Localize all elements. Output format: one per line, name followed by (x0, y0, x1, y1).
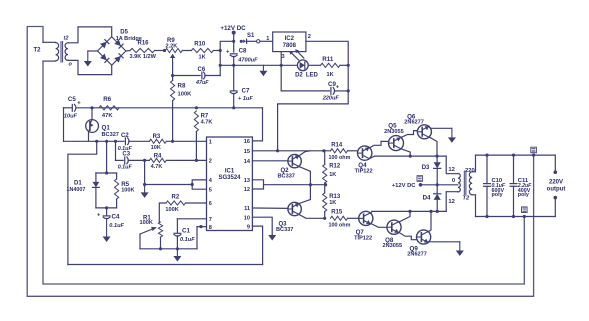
label IC2 pin3 (282, 54, 285, 60)
label R6 value (102, 113, 113, 119)
transistor Q1 (86, 120, 99, 133)
wire output top rail (476, 154, 556, 156)
wire top bus (375, 155, 447, 157)
svg-text:+12V DC: +12V DC (392, 183, 416, 189)
switch S1 (240, 39, 273, 43)
label IC1 (225, 168, 235, 174)
resistor R8 (171, 81, 175, 101)
node tap R12R13 (324, 183, 327, 186)
svg-text:IC2: IC2 (285, 36, 295, 42)
ground at pin10 (268, 235, 276, 241)
wire vertical A (68, 141, 97, 264)
svg-text:R16: R16 (138, 41, 150, 47)
node pin8 (199, 225, 202, 228)
wire Q9 collector (429, 211, 431, 231)
wire pin15 row (252, 150, 330, 152)
wire pin45 drop (144, 160, 146, 184)
svg-text:poly: poly (492, 192, 503, 198)
label IC1 pin 6 (209, 201, 212, 207)
node rail1 A (95, 140, 98, 143)
led D2 (297, 60, 308, 71)
label Q1 part (102, 132, 119, 138)
svg-text:16: 16 (244, 139, 250, 145)
wire pin45 row (145, 184, 193, 186)
R1 wiper (140, 227, 157, 234)
svg-text:R3: R3 (153, 134, 161, 140)
wire C4 top (106, 208, 108, 215)
ground at C4 (103, 218, 111, 242)
wire pins1213 tap (264, 184, 326, 186)
node R11 right (347, 64, 350, 67)
label C8 (239, 47, 247, 54)
wire pin2 row b (128, 159, 149, 161)
label C10 poly (492, 192, 503, 198)
svg-text:TIP122: TIP122 (355, 169, 373, 175)
node ground rail tee (219, 64, 222, 67)
wire Q4 collector to Q5 base (370, 141, 389, 147)
label S1 (247, 33, 255, 39)
node S1 tee (232, 40, 235, 43)
wire C9 row right (334, 90, 348, 92)
transformer T2 primary winding (56, 43, 59, 61)
label R8 (178, 83, 186, 90)
svg-text:1K: 1K (327, 72, 334, 78)
svg-text:D1: D1 (74, 180, 82, 186)
node rail1 R8 (171, 140, 174, 143)
wire bridge plus to R16 (126, 50, 130, 53)
transformer T2 secondary winding (65, 43, 68, 61)
label C11 volt (518, 188, 531, 194)
node rail1 C3tap (114, 140, 117, 143)
label IC1 pin 7 (209, 217, 212, 223)
svg-text:12: 12 (448, 199, 454, 205)
wire Q7 emitter to bus (371, 211, 372, 213)
wire Q9 emitter to ground (429, 241, 460, 243)
label R4 (154, 154, 162, 160)
svg-text:13: 13 (244, 178, 250, 184)
wire wiper to R8 (172, 62, 174, 81)
transistor Q9 (417, 230, 431, 244)
svg-text:BC337: BC337 (276, 227, 293, 233)
transistor Q2 (288, 154, 301, 167)
wire R1 bottom (160, 237, 162, 249)
capacitor C10 (484, 155, 491, 216)
label R14 value (329, 155, 351, 161)
wire R13 leads (324, 185, 326, 219)
svg-text:0: 0 (452, 178, 455, 184)
svg-text:4700uF: 4700uF (237, 57, 258, 63)
svg-text:R6: R6 (103, 96, 111, 103)
svg-text:12: 12 (244, 187, 250, 193)
capacitor C4 (103, 216, 110, 219)
wire R2 to pin6 (186, 202, 207, 204)
resistor R6 (99, 106, 119, 110)
label R16 value (130, 54, 157, 60)
label IC1 pin 9 (247, 224, 250, 230)
svg-text:C5: C5 (68, 96, 76, 103)
wire bottom row (140, 248, 197, 250)
capacitor C11 (510, 155, 517, 216)
label C5 plus (77, 101, 81, 107)
label +12V DC mid (392, 183, 416, 189)
svg-text:3.9K 1/2W: 3.9K 1/2W (130, 54, 157, 60)
wire C1 bottom (176, 236, 178, 249)
wire Q5 emitter to bus (401, 149, 410, 156)
wire pin8 riser (197, 227, 207, 249)
label C3 value (118, 165, 133, 171)
label bottom 12 (448, 199, 454, 205)
label D4 (423, 194, 431, 201)
node top C10 (485, 154, 488, 157)
label Q9 (410, 245, 419, 252)
node Q5 emitter (409, 155, 412, 158)
svg-text:1: 1 (209, 140, 212, 146)
wire pin5 bracket (192, 185, 206, 190)
node bottom loop (523, 215, 526, 218)
svg-text:BC337: BC337 (278, 173, 295, 179)
svg-text:2N3055: 2N3055 (383, 243, 403, 249)
wire secondary top lead (472, 155, 475, 172)
wire Q6 collector (429, 137, 437, 156)
wire inner ground rail (68, 264, 263, 266)
svg-text:T2: T2 (463, 196, 471, 202)
label output (547, 186, 566, 192)
node R1 bottom (159, 247, 162, 250)
label IC1 pin 8 (209, 225, 212, 231)
svg-text:BC327: BC327 (102, 132, 119, 138)
output transformer core (464, 171, 466, 195)
node +12V top (232, 31, 236, 35)
label R15 value (329, 222, 351, 228)
svg-text:100 ohm: 100 ohm (329, 222, 351, 228)
label IC2 (285, 36, 295, 42)
svg-text:0.1uF: 0.1uF (118, 165, 133, 171)
label R7 value (201, 119, 213, 125)
svg-text:7808: 7808 (283, 43, 297, 49)
node R7 top (195, 106, 198, 109)
svg-text:2N3055: 2N3055 (384, 129, 404, 135)
wire R9-R10 (182, 50, 191, 52)
label Q5 part (384, 129, 404, 135)
svg-text:C3: C3 (122, 152, 130, 158)
node terminal bottom (554, 196, 558, 200)
wire Q8 collector to Q9 base (399, 233, 416, 240)
wire pin4 bracket (192, 180, 206, 185)
label 0 (452, 178, 455, 184)
label R11 (322, 56, 334, 63)
label R13 value (329, 200, 336, 206)
svg-text:2: 2 (209, 159, 212, 165)
transistor Q8 (387, 220, 401, 234)
label IC1 part (218, 175, 241, 181)
wire pin1 rail a (64, 140, 125, 142)
capacitor C1 (174, 233, 181, 236)
resistor R5 (115, 179, 119, 199)
wire Q2Q3 column (309, 171, 311, 199)
wire bridge minus to ground (88, 50, 98, 52)
node R7 bottom (195, 159, 198, 162)
label LED (306, 73, 319, 79)
ic IC1 body (207, 137, 253, 231)
label IC1 pin 1 (209, 140, 212, 146)
ground at C1 (173, 249, 181, 262)
node Q9 collector (429, 210, 432, 213)
resistor R7 (194, 111, 198, 132)
label C2 (121, 133, 129, 139)
label 220V (549, 180, 563, 186)
label R9 (167, 38, 175, 44)
wire pin1 rail b (129, 140, 150, 142)
wire secondary bottom lead (472, 195, 475, 217)
label Q6 (407, 113, 416, 120)
svg-text:100K: 100K (121, 187, 134, 193)
wire Q3 emitter (299, 215, 324, 219)
wire C6 row right (205, 75, 220, 77)
label IC1 pin 11 (244, 206, 250, 212)
svg-text:C8: C8 (239, 47, 247, 54)
wire Q8 emitter to bus (399, 211, 410, 221)
svg-text:1K: 1K (199, 54, 206, 60)
label Q7 part (354, 236, 372, 242)
wire C8 to ground rail (233, 56, 235, 65)
wire Q7 collector to Q8 base (371, 224, 387, 228)
label R1 value (140, 220, 153, 226)
label C8 value (237, 57, 258, 63)
wire +12V riser (220, 41, 234, 75)
svg-text:2N6277: 2N6277 (407, 252, 427, 258)
svg-text:T2: T2 (34, 48, 42, 54)
wire +12V to S1 tee (233, 33, 235, 52)
label C9 (328, 81, 336, 88)
capacitor C3 (125, 157, 129, 164)
label Q1 (102, 125, 111, 132)
svg-text:14: 14 (244, 159, 251, 165)
diode D4 (434, 194, 441, 200)
wire secondary top to bridge (68, 27, 112, 43)
label C2 value (118, 146, 133, 152)
node C8 ground (232, 64, 235, 67)
svg-text:D3: D3 (422, 165, 430, 171)
label IC2 pin2 (308, 34, 311, 40)
svg-text:4.7K: 4.7K (201, 119, 213, 125)
transistor Q3 (288, 202, 301, 215)
svg-text:220uF: 220uF (322, 95, 340, 101)
svg-text:IC1: IC1 (225, 168, 235, 174)
label top 12 (448, 167, 454, 173)
label C11 value (517, 183, 532, 189)
R9 wiper arrow (170, 54, 175, 62)
node rail1 B (105, 140, 108, 143)
svg-text:S1: S1 (247, 33, 255, 39)
label R10 (194, 41, 206, 47)
resistor R10 (191, 48, 213, 52)
wire IC2 pin2 to R11 column (306, 41, 348, 65)
node R13 bottom (323, 217, 326, 220)
label C5 value (64, 114, 78, 120)
node box top (105, 171, 108, 174)
label 1A Bridge (116, 36, 142, 42)
svg-text:LED: LED (306, 73, 319, 79)
svg-text:+: + (226, 50, 230, 56)
label R4 value (151, 164, 163, 170)
label C10 (492, 178, 503, 184)
wire pin10 stub (252, 217, 272, 236)
svg-text:R11: R11 (322, 56, 334, 63)
node C6 left (171, 74, 174, 77)
output transformer primary winding (458, 174, 460, 193)
node bottom C11 (512, 215, 515, 218)
node box bottom (105, 206, 108, 209)
wire top tap (446, 156, 458, 174)
label IC2 pin1 (266, 36, 269, 42)
label R12 value (329, 172, 336, 178)
capacitor C6 (202, 72, 205, 79)
wire pin16 riser (252, 108, 262, 141)
label R7 (201, 114, 209, 120)
wire R11 to pin2 column (340, 64, 348, 66)
svg-text:1N4007: 1N4007 (67, 187, 86, 193)
label o (69, 62, 73, 68)
svg-text:100K: 100K (140, 220, 153, 226)
label C7 value (238, 96, 253, 102)
potentiometer R1 (158, 222, 162, 237)
label IC1 pin 2 (209, 159, 212, 165)
label R11 value (327, 72, 334, 78)
label IC2 part (283, 43, 297, 49)
svg-text:C1: C1 (182, 228, 190, 235)
node bottom C10 (485, 215, 488, 218)
wire outer loop (charger primary top to output top rail) (27, 27, 533, 297)
label Q2 part (278, 173, 295, 179)
wire pin7 row (177, 218, 206, 220)
svg-text:11: 11 (244, 206, 250, 212)
svg-text:R8: R8 (178, 83, 186, 90)
label IC1 pin 16 (244, 139, 250, 145)
node tap Q2col (309, 183, 312, 186)
svg-text:+ 1uF: + 1uF (238, 96, 253, 102)
svg-text:R15: R15 (331, 210, 343, 216)
wire mid rail (64, 107, 263, 109)
node centre tap (436, 183, 439, 186)
transformer T2 primary lead top (43, 41, 56, 43)
label Q3 (279, 222, 288, 228)
wire C7 column (233, 65, 235, 90)
svg-text:220V: 220V (549, 180, 563, 186)
bridge diode top-right (114, 39, 123, 48)
label R2 (172, 195, 180, 201)
regulator IC2 body (273, 32, 306, 52)
label R13 (329, 194, 341, 200)
label R8 value (178, 92, 193, 98)
svg-text:TIP122: TIP122 (354, 236, 372, 242)
label R16 (138, 41, 150, 47)
label C5 (68, 96, 76, 103)
svg-text:47uF: 47uF (195, 80, 209, 86)
svg-text:output: output (547, 186, 566, 192)
svg-text:SG3524: SG3524 (218, 175, 241, 181)
svg-text:D2: D2 (295, 73, 303, 79)
wire C6 row left (173, 75, 201, 77)
svg-text:10: 10 (244, 215, 250, 221)
node +12V mid (419, 183, 423, 187)
connector box bottom (522, 207, 528, 213)
label D5 (120, 30, 128, 36)
transistor Q4 (358, 146, 372, 160)
label Q4 (358, 162, 367, 169)
label Q3 part (276, 227, 293, 233)
wire Q2 emitter (299, 167, 310, 172)
wire IC2 pin3 drop (280, 52, 282, 66)
label C1 value (180, 237, 195, 243)
label Q4 part (355, 169, 373, 175)
svg-text:0.1uF: 0.1uF (180, 237, 195, 243)
svg-text:D5: D5 (120, 30, 128, 36)
wire middle loop (charger primary bottom to output bottom rail) (43, 61, 524, 284)
resistor R15 (331, 216, 348, 220)
svg-text:poly: poly (518, 192, 529, 198)
resistor R3 (149, 139, 166, 143)
node D3 top (435, 155, 438, 158)
svg-text:100 ohm: 100 ohm (329, 155, 351, 161)
wire C7 to mid rail (233, 93, 235, 107)
wire R1 wiper drop (139, 234, 141, 249)
wire pin2 row c (166, 159, 206, 161)
svg-text:Q1: Q1 (102, 125, 111, 132)
label R2 value (165, 207, 178, 213)
node C9 right (347, 89, 350, 92)
node C1 bottom (176, 247, 179, 250)
label Q5 (388, 123, 397, 130)
wire Q5 collector to Q6 base (401, 131, 417, 138)
node pin45 right (191, 183, 194, 186)
label C10 value (492, 183, 506, 189)
node D4 bottom (436, 210, 439, 213)
svg-text:6: 6 (209, 201, 212, 207)
label C3 (122, 152, 130, 158)
svg-text:7: 7 (209, 217, 212, 223)
capacitor C5 (72, 104, 76, 111)
label T2 (34, 48, 42, 54)
wire R5 branch (116, 173, 118, 208)
svg-text:C6: C6 (198, 67, 206, 73)
label IC1 pin 4 (209, 178, 213, 184)
label C1 (182, 228, 190, 235)
led D2 arrows (289, 49, 304, 60)
resistor R4 (149, 158, 166, 162)
wire C5 left drop (63, 108, 65, 142)
label IC1 pin 14 (244, 159, 251, 165)
resistor R13 (323, 193, 327, 212)
bridge diode bottom-left (100, 54, 109, 63)
label R1 (143, 216, 151, 222)
resistor R16 (130, 48, 155, 52)
svg-text:100K: 100K (165, 207, 178, 213)
label R5 value (121, 187, 134, 193)
transformer T2 core (61, 42, 63, 63)
resistor R11 (321, 63, 341, 67)
node top loop (532, 154, 535, 157)
label C4 plus (97, 213, 101, 219)
wire C3 tap (115, 141, 117, 160)
svg-text:1: 1 (266, 36, 269, 42)
wire LED row left (280, 64, 298, 67)
svg-text:R12: R12 (329, 164, 341, 170)
label R3 value (151, 145, 161, 151)
svg-text:9: 9 (247, 224, 250, 230)
wire R8 to pin1 rail (172, 101, 174, 142)
svg-text:2.2K: 2.2K (166, 43, 178, 49)
transformer T2 primary lead bottom (43, 60, 56, 62)
